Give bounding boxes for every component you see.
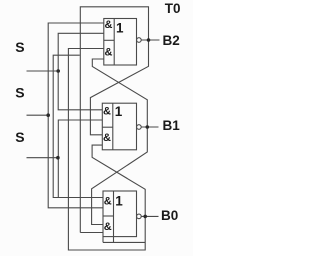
svg-text:B1: B1 xyxy=(163,118,181,133)
svg-text:&: & xyxy=(103,105,111,117)
svg-text:1: 1 xyxy=(116,21,124,36)
svg-text:&: & xyxy=(104,196,112,208)
svg-text:&: & xyxy=(105,19,113,31)
svg-text:S: S xyxy=(15,129,24,145)
svg-text:1: 1 xyxy=(115,104,123,119)
svg-text:T0: T0 xyxy=(165,1,181,16)
svg-text:B0: B0 xyxy=(161,208,178,223)
svg-text:S: S xyxy=(15,84,24,100)
svg-text:1: 1 xyxy=(115,194,123,209)
svg-text:S: S xyxy=(15,39,24,55)
svg-text:&: & xyxy=(103,132,111,144)
svg-text:&: & xyxy=(104,221,112,233)
svg-text:B2: B2 xyxy=(163,33,180,48)
svg-text:&: & xyxy=(105,47,113,59)
